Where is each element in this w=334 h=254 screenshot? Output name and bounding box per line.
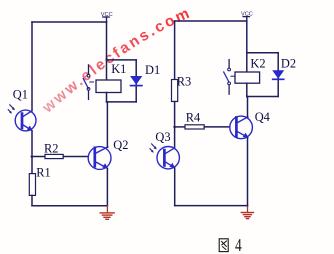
wire Q3 emitter down (174, 168, 176, 206)
relay coil K1 (96, 80, 121, 93)
wire Q4 collector up (247, 97, 249, 118)
light arrows into Q1 (8, 105, 15, 114)
ground right (241, 206, 253, 219)
wire K1 bottom (107, 101, 137, 103)
caption 图 4 (219, 236, 242, 254)
wire junction to R2 (31, 156, 45, 158)
wire R1 bottom (31, 195, 33, 205)
power VCC2 (241, 11, 253, 21)
phototransistor Q3 (157, 147, 179, 169)
wire junction to R1 (31, 157, 33, 174)
wire left rail to Q1 collector (31, 22, 33, 111)
svg-text:R3: R3 (177, 75, 191, 89)
resistor R4 (185, 125, 204, 129)
transistor Q4 (230, 116, 253, 139)
wire K1 top (107, 59, 137, 61)
wire K2 coil top lead (246, 53, 248, 72)
svg-text:Q3: Q3 (155, 130, 170, 144)
resistor R3 (172, 80, 178, 102)
wire Q4 emitter down (247, 138, 249, 206)
diode D1 (130, 60, 142, 102)
power VCC1 (101, 12, 113, 22)
relay contact K1 (83, 65, 93, 100)
relay coil K2 (235, 72, 260, 83)
wire VCC2 rail down (246, 21, 248, 53)
light arrows into Q3 (150, 144, 157, 153)
relay contact K2 (224, 60, 235, 95)
svg-text:4: 4 (235, 236, 242, 254)
svg-text:Q4: Q4 (255, 110, 270, 124)
wire K1 coil top lead (106, 60, 108, 80)
wire Q2 emitter down (106, 169, 108, 206)
wire bottom-left horizontal (32, 205, 107, 207)
node junction (173, 126, 176, 129)
svg-text:R4: R4 (186, 110, 200, 124)
watermark www.elecfans.com (48, 16, 192, 113)
wire Q1 emitter down (31, 131, 33, 158)
diode D2 (272, 53, 284, 97)
svg-text:K2: K2 (250, 57, 265, 71)
wire K2 coil bottom lead (246, 83, 248, 96)
svg-text:R2: R2 (44, 141, 58, 155)
wire R3 bottom to junction (174, 102, 176, 128)
wire R4 to Q4 base (204, 126, 230, 128)
wire junction down to Q3 (174, 127, 176, 148)
wire R2 to Q2 base (63, 156, 88, 158)
wire right-left rail to R3 (174, 21, 176, 80)
svg-text:R1: R1 (36, 166, 50, 180)
wire VCC1 rail down (106, 22, 108, 60)
resistor R1 (29, 174, 35, 196)
transistor Q2 (88, 147, 111, 170)
svg-text:Q2: Q2 (113, 138, 128, 152)
svg-text:Q1: Q1 (13, 88, 28, 102)
wire K2 bottom (247, 96, 278, 98)
wire K1 coil bottom lead (106, 93, 108, 102)
wire Q2 collector up (106, 102, 108, 147)
wire junction to R4 (175, 126, 185, 128)
wire K2 top (247, 52, 278, 54)
resistor R2 (45, 154, 63, 158)
wire top-left horizontal (32, 21, 107, 23)
ground left (100, 206, 114, 220)
svg-text:D1: D1 (145, 63, 160, 77)
svg-text:D2: D2 (281, 57, 296, 71)
wire bottom-right horizontal (175, 205, 248, 207)
wire top-right horizontal (175, 20, 247, 22)
phototransistor Q1 (15, 110, 36, 131)
svg-text:K1: K1 (111, 62, 126, 76)
